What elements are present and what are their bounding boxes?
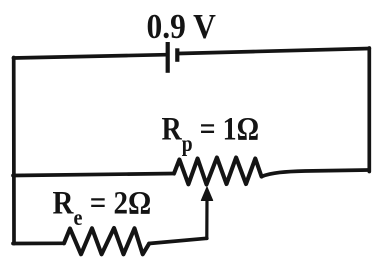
svg-text:0.9 V: 0.9 V bbox=[147, 8, 216, 47]
wire Re to wiper bbox=[149, 238, 207, 243]
wire bottom-left (left lead of Re) bbox=[13, 241, 64, 245]
wire top-right (battery right lead) bbox=[179, 49, 370, 54]
resistor Re zigzag bbox=[64, 228, 149, 254]
resistor Rp zigzag bbox=[174, 158, 262, 185]
wiper arrowhead bbox=[201, 187, 212, 201]
wiper arrow stem bbox=[205, 199, 208, 239]
battery B1 short plate bbox=[175, 48, 179, 62]
wire top-left (battery left lead) bbox=[14, 55, 167, 58]
wire middle (left lead of Rp) bbox=[13, 174, 174, 176]
wire left side bbox=[12, 58, 16, 244]
svg-text:Re = 2Ω: Re = 2Ω bbox=[53, 184, 152, 231]
wire right side bbox=[367, 48, 371, 172]
svg-text:Rp = 1Ω: Rp = 1Ω bbox=[162, 110, 260, 156]
battery B1 long plate bbox=[166, 42, 170, 73]
wire right of Rp bbox=[262, 170, 369, 177]
